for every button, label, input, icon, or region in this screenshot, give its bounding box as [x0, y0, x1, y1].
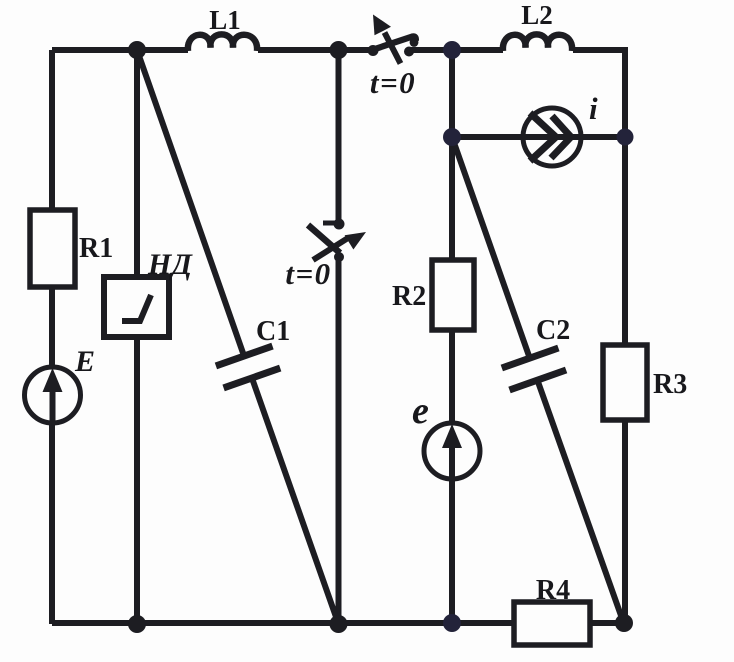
svg-text:R1: R1 [79, 233, 113, 264]
wire diagonal C1 lower segment [253, 381, 339, 624]
svg-text:L2: L2 [521, 0, 553, 30]
capacitor C1 plate 2 [224, 368, 281, 388]
wire R1 to source E [49, 287, 55, 624]
svg-text:НД: НД [147, 248, 193, 281]
current source i circle [523, 108, 581, 166]
voltage source e arrow shaft [449, 441, 455, 479]
svg-text:e: e [412, 390, 429, 432]
switch S2 contact tick [323, 221, 339, 226]
switch S1 contact left [368, 45, 379, 56]
wire diagonal C2 lower segment [537, 379, 624, 624]
wire R2 branch vertical (node C through node E to R2) [449, 50, 455, 260]
svg-text:t=0: t=0 [285, 256, 331, 291]
wire bottom horizontal right [590, 620, 624, 626]
wire top-left horizontal (corner to node A to L1) [52, 47, 188, 53]
resistor R3 [603, 345, 647, 420]
wire L2 to top-right corner [573, 50, 625, 137]
node B mid-top junction [330, 41, 348, 59]
svg-text:R3: R3 [653, 369, 687, 400]
wire diagonal C1 upper segment [137, 50, 243, 353]
wire current source branch left [452, 134, 524, 140]
wire R3 to bottom-right node [622, 420, 628, 624]
current source i chevron outer [530, 113, 556, 161]
wire left vertical upper (corner to R1) [49, 50, 55, 210]
wire bottom horizontal left [52, 620, 514, 626]
wire S1 to node C [409, 47, 503, 53]
voltage source e circle [424, 423, 480, 479]
voltage source E arrow shaft [50, 385, 56, 423]
wire diagonal C2 upper segment [452, 137, 529, 356]
wire through current source [524, 134, 625, 140]
inductor L1 [188, 34, 257, 51]
switch S2 contact lower [334, 252, 344, 262]
current source i chevron inner [551, 116, 571, 158]
wire mid vertical lower (S2 to bottom node) [336, 257, 342, 624]
svg-text:C2: C2 [536, 315, 570, 346]
node F bottom under НД [128, 615, 146, 633]
resistor R2 [432, 260, 474, 330]
svg-text:L1: L1 [209, 5, 241, 35]
switch S2 contact upper [334, 219, 345, 230]
wire НД box to bottom node [134, 337, 140, 624]
node C right-top junction [443, 41, 461, 59]
capacitor C1 plate 1 [216, 346, 273, 366]
switch S2 arrow [313, 238, 348, 260]
switch S1 blade [375, 36, 416, 49]
svg-text:C1: C1 [256, 316, 290, 347]
nonlinear element НД box [104, 277, 169, 337]
resistor R4 [514, 602, 590, 645]
wire vertical branch НД upper [134, 50, 140, 277]
node A top-left junction [128, 41, 146, 59]
switch S2 arrowhead [345, 232, 366, 250]
capacitor C2 plate 2 [510, 370, 567, 390]
resistor R1 [30, 210, 75, 287]
switch S1 blade hook tip [410, 38, 419, 47]
node D current branch left junction [443, 128, 461, 146]
inductor L2 [503, 34, 572, 51]
svg-text:t=0: t=0 [370, 65, 416, 100]
node G bottom mid [330, 615, 348, 633]
capacitor C2 plate 1 [502, 348, 559, 368]
switch S1 contact right [404, 47, 414, 57]
node E current branch right junction [617, 129, 634, 146]
svg-text:i: i [589, 91, 598, 126]
wire R2 to source e [449, 330, 455, 624]
wire right vertical upper (node D to R3) [622, 137, 628, 345]
svg-text:R2: R2 [392, 281, 426, 312]
nonlinear element НД curve [122, 295, 151, 321]
node H bottom under e [443, 614, 461, 632]
switch S1 arrowhead [373, 15, 391, 36]
svg-text:R4: R4 [536, 575, 570, 606]
voltage source e arrowhead [442, 424, 462, 448]
wire mid vertical upper (node B to switch S2) [336, 50, 342, 223]
svg-text:E: E [74, 345, 95, 378]
node I bottom-right [615, 614, 633, 632]
voltage source E circle [25, 367, 81, 423]
switch S1 arrow [385, 33, 401, 64]
wire L1 to node B [258, 47, 374, 53]
switch S2 blade [308, 225, 340, 253]
voltage source E arrowhead [43, 368, 63, 392]
